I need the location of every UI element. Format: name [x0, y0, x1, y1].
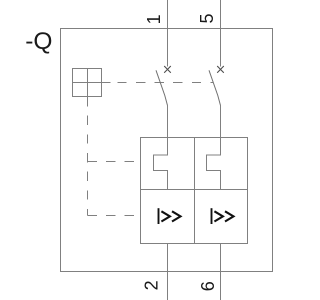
svg-text:6: 6: [198, 281, 218, 291]
breaker contact cross pole 2: [217, 66, 224, 73]
switch blade pole 1: [156, 70, 168, 105]
actuator square: [73, 69, 102, 97]
wire terminal 1 top: [167, 0, 169, 67]
trip unit horizontal divider: [141, 189, 248, 191]
actuator cross vertical: [87, 69, 89, 107]
magnetic trip symbol I>> pole 2: [212, 208, 234, 224]
svg-text:-Q: -Q: [25, 28, 52, 55]
wire terminal 2 bottom: [167, 244, 169, 300]
thermal overload element pole 1: [154, 138, 168, 190]
svg-text:5: 5: [197, 13, 217, 23]
trip unit box: [141, 138, 248, 244]
linkage dashed horizontal to poles: [110, 82, 213, 84]
linkage branch to thermal trip: [88, 161, 141, 163]
wire pole 2 middle: [220, 106, 222, 138]
linkage dashed vertical: [87, 106, 89, 215]
actuator cross horizontal: [73, 82, 111, 84]
svg-text:1: 1: [144, 14, 164, 24]
magnetic trip symbol I>> pole 1: [159, 208, 181, 224]
wire pole 1 middle: [167, 106, 169, 138]
thermal overload element pole 2: [207, 138, 221, 190]
linkage branch to magnetic trip: [88, 215, 141, 217]
wire terminal 5 top: [220, 0, 222, 67]
main enclosure box: [61, 29, 273, 272]
wire terminal 6 bottom: [220, 244, 222, 300]
trip unit vertical divider: [194, 138, 196, 244]
switch blade pole 2: [209, 70, 221, 105]
breaker contact cross pole 1: [164, 66, 171, 73]
svg-text:2: 2: [142, 280, 162, 290]
